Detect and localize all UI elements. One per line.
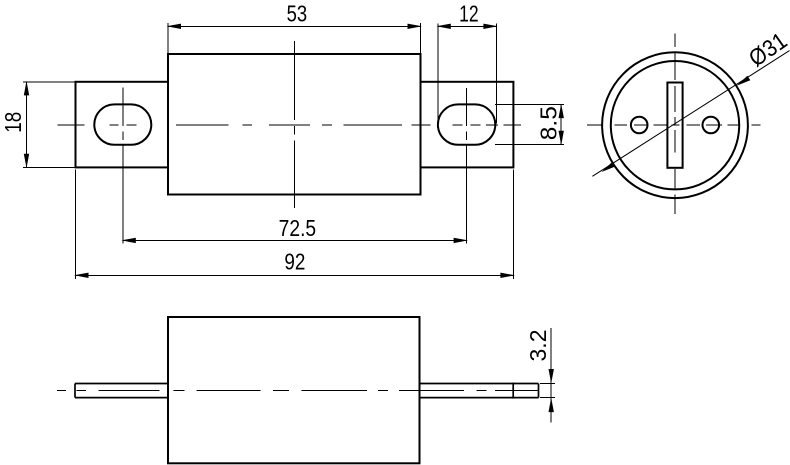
svg-text:18: 18 [0, 112, 26, 133]
svg-text:53: 53 [287, 0, 308, 26]
svg-text:3.2: 3.2 [525, 330, 551, 362]
svg-text:8.5: 8.5 [536, 106, 562, 140]
svg-text:12: 12 [459, 0, 479, 26]
svg-text:72.5: 72.5 [279, 215, 317, 241]
svg-text:92: 92 [284, 248, 305, 274]
